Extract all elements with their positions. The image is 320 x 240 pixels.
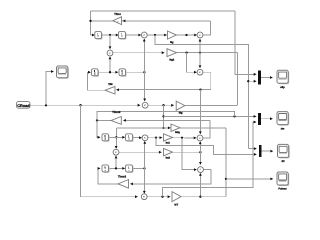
node J17 (116.3,137.3) bbox=[115, 136, 117, 138]
svg-text:kMg: kMg bbox=[175, 131, 180, 134]
arrow into sum9 top bbox=[199, 162, 202, 165]
node J24 (248.3,81.2) bbox=[247, 80, 249, 82]
arrow into sum9 bottom bbox=[199, 173, 202, 176]
wire scope0 branch bbox=[46, 72, 53, 106]
sum S7 bbox=[197, 135, 203, 141]
mux M1 bbox=[258, 70, 261, 84]
wire x=116.3 down to sum8 top bbox=[115, 128, 117, 148]
node J10 (80.5,105.2) bbox=[79, 104, 81, 106]
svg-text:Mg: Mg bbox=[179, 112, 183, 115]
svg-text:Ng: Ng bbox=[170, 41, 174, 44]
integrator blockC 1/s bbox=[103, 135, 110, 142]
wire sum5 out to gain G bbox=[148, 104, 173, 106]
wire x=200.5 down to sum7 top bbox=[200, 90, 202, 134]
integrator blockB 1/s bbox=[120, 70, 127, 77]
gain triU (right) bbox=[171, 124, 180, 131]
scope Scope1 bbox=[278, 71, 289, 84]
wire Tims2 out y=120.5 bbox=[97, 120, 111, 122]
svg-text:Tims3: Tims3 bbox=[118, 174, 127, 178]
arrow into sum4 top bbox=[199, 65, 202, 68]
arrow into gain MT bbox=[168, 195, 171, 198]
scope Scope3 bbox=[279, 145, 290, 158]
node J8 (200.5,89.6) bbox=[199, 88, 201, 90]
node J14 (234.5,116.4) bbox=[233, 115, 235, 117]
node J19 (182,137.8) bbox=[181, 137, 183, 139]
svg-text:Tims: Tims bbox=[114, 12, 121, 16]
wire MT out extension to x=226 bbox=[200, 196, 226, 198]
arrow into sum3 bottom bbox=[109, 56, 112, 59]
integrator block1 1/s bbox=[96, 33, 103, 40]
wire x=144.5 down to sum10 top bbox=[144, 168, 146, 192]
wire x=80.5 road to bottom row bbox=[81, 105, 137, 197]
wire ka1 out to sum7 bbox=[173, 137, 196, 139]
node J21 (200.4,152.2) bbox=[199, 151, 201, 153]
arrow into sum10 left bbox=[135, 195, 138, 198]
wire blockC-blockD y=137.3 bbox=[109, 136, 125, 138]
wire Tims feedback line y=20.9 bbox=[91, 20, 211, 22]
svg-text:CRoad: CRoad bbox=[17, 104, 30, 108]
arrow into scope2 bbox=[270, 117, 273, 120]
wire TM gain out up to blockA bbox=[88, 72, 105, 90]
wire mux2 to scope2 bbox=[261, 118, 272, 120]
svg-text:slip: slip bbox=[280, 86, 285, 89]
wire x=226 down bbox=[225, 128, 227, 197]
svg-text:dX: dX bbox=[281, 160, 285, 163]
sum S5 bbox=[142, 102, 148, 108]
wire mux3 top feed stub bbox=[248, 148, 255, 150]
svg-text:Tims2: Tims2 bbox=[112, 110, 121, 114]
wire x=186.6 down to sum4 left bbox=[187, 53, 196, 73]
gain Tims (left) bbox=[113, 17, 122, 25]
gain Tims3 (left) bbox=[118, 180, 129, 189]
wire x=144.4 down to sum5 top bbox=[143, 72, 145, 100]
arrow into scope0 bbox=[51, 70, 54, 73]
wire mux1 bottom stub bbox=[248, 80, 255, 82]
arrow into TM gain right edge bbox=[116, 88, 119, 91]
wire Ng2 out y=52.5 bbox=[177, 52, 238, 54]
gain G (right) bbox=[176, 101, 185, 110]
wire triU out to corner x=226 bbox=[180, 127, 226, 129]
mux M3 bbox=[259, 145, 262, 157]
gain ka2 (right) bbox=[164, 148, 173, 155]
arrow into sum7 top bbox=[199, 131, 202, 134]
wire x=116 sum8 bottom from J20 bbox=[115, 157, 117, 169]
arrow into sum6 bottom bbox=[143, 141, 146, 144]
wire sum6 out to gain ka1 bbox=[148, 137, 162, 139]
sum S6 bbox=[142, 135, 148, 141]
sum S4 bbox=[197, 69, 203, 75]
wire ORoad out y=105.2 bbox=[29, 104, 139, 106]
wire feedback top bus y=10.8 bbox=[91, 10, 235, 12]
wire mux3 bottom feed bbox=[156, 138, 256, 155]
wire x=200.4 down to sum9 top bbox=[199, 152, 201, 164]
arrow into sum5 left bbox=[138, 104, 141, 107]
wire triU input row y=128 bbox=[116, 127, 169, 129]
arrow into mux3 top bbox=[254, 147, 257, 150]
wire block1-block2 y=35 bbox=[102, 34, 118, 36]
node J22 (144.5,168.4) bbox=[143, 167, 145, 169]
wire sum8 out to gain ka2 bbox=[119, 151, 161, 153]
wire x=234.9 acc bus to mux1 top bbox=[235, 11, 256, 75]
wire sum7 loop right-up to Tims2 line bbox=[203, 120, 210, 137]
arrow into sum2 bottom bbox=[199, 39, 202, 42]
integrator blockE 1/s bbox=[103, 166, 110, 173]
wire Tims2 input line y=120.4 bbox=[124, 119, 210, 121]
wire gain G out to corner 237.5 bbox=[185, 104, 238, 106]
svg-text:Ng2: Ng2 bbox=[169, 58, 174, 61]
source block ORoad bbox=[17, 102, 31, 109]
arrow into sum9 left bbox=[194, 168, 197, 171]
node J1 (90.5,20.9) bbox=[89, 20, 91, 22]
wire x=163.5 down bbox=[163, 105, 165, 128]
wire sum1 to gain Ng bbox=[147, 34, 166, 36]
arrow into sum6 left bbox=[139, 136, 142, 139]
wire x=200.4 up to sum7 bottom bbox=[199, 142, 201, 152]
arrow into scope4 bbox=[270, 178, 273, 181]
integrator blockA 1/s bbox=[93, 70, 100, 77]
wire y=44.6 line from J3 bbox=[155, 35, 248, 149]
node J12 (163.5,116.4) bbox=[162, 115, 164, 117]
arrow into gain ka2 bbox=[159, 151, 162, 154]
wire sum2 loop up to Tims input bbox=[203, 21, 211, 35]
wire blockB out to x=144.4 bbox=[126, 71, 145, 73]
wire blockD to sum6 bbox=[133, 136, 141, 138]
wire mux3 to scope3 bbox=[261, 150, 272, 152]
node J13 (163.5,128) bbox=[162, 127, 164, 129]
arrow into mux1 bottom bbox=[254, 80, 257, 83]
wire mux2 bottom feed long bbox=[163, 122, 256, 197]
wire sum3 out to gain Ng2 bbox=[113, 52, 164, 54]
wire ka2 out y=152.2 bbox=[173, 151, 201, 153]
wire x=110 sum3 bottom from J6 bbox=[109, 58, 111, 73]
svg-text:MT: MT bbox=[174, 203, 178, 206]
sum S9 bbox=[198, 167, 204, 173]
svg-text:ka2: ka2 bbox=[166, 156, 171, 159]
arrow into sum4 left bbox=[194, 71, 197, 74]
scope Scope0 bbox=[58, 67, 69, 79]
arrow into scope1 bbox=[270, 76, 273, 79]
sum S2 bbox=[197, 32, 203, 38]
wire Tims3 out up to blockE bbox=[98, 168, 118, 184]
wire sum9 loop right-down to Tims3 line bbox=[131, 170, 211, 184]
arrow into Tims2 right edge bbox=[123, 119, 126, 122]
arrow into integrator blockD bbox=[122, 136, 125, 139]
arrow into integrator blockA bbox=[88, 71, 91, 74]
arrow into mux3 bottom bbox=[254, 153, 257, 156]
arrow into sum7 left bbox=[194, 137, 197, 140]
node J11 (163.5,105.2) bbox=[162, 104, 164, 106]
svg-text:Pulses: Pulses bbox=[278, 188, 287, 191]
wire block2 to sum1 bbox=[126, 34, 141, 36]
node J9 (46,105.2) bbox=[45, 104, 47, 106]
sum S1 bbox=[141, 32, 147, 38]
wire left drop x=90.5 (Tims out to integrator 1) bbox=[90, 11, 92, 35]
arrow into sum10 top bbox=[143, 191, 146, 194]
wire blockF out to x=144.5 bbox=[133, 167, 145, 169]
node J26 (200.4,196.7) bbox=[199, 196, 201, 198]
arrow into sum2 left bbox=[194, 34, 197, 37]
arrow into integrator blockE bbox=[98, 167, 101, 170]
node J2 (110,35) bbox=[109, 34, 111, 36]
wire MT out up to sum9 bottom bbox=[181, 174, 200, 197]
arrow into gain triU bbox=[168, 127, 171, 130]
gain MT (right) bbox=[172, 192, 181, 202]
sum S8 bbox=[113, 149, 119, 155]
arrow into mux1 top bbox=[254, 73, 257, 76]
gain TM (left) bbox=[105, 86, 115, 94]
arrow into integrator block2 bbox=[116, 34, 119, 37]
integrator blockD 1/s bbox=[127, 135, 134, 142]
arrow into sum8 bottom bbox=[115, 156, 118, 159]
wire mux2 top feed y=116.4 bbox=[164, 115, 256, 117]
wire mux1 to scope1 bbox=[261, 77, 272, 79]
arrow into mux2 bottom bbox=[254, 121, 257, 124]
wire x=144.5 up to sum6 bottom bbox=[144, 141, 146, 168]
wire blockA-blockB y=72.2 bbox=[98, 71, 117, 73]
mux M2 bbox=[258, 113, 261, 125]
arrow into scope3 bbox=[270, 150, 273, 153]
wire x=182 down to sum9 left bbox=[182, 138, 196, 170]
integrator block2 1/s bbox=[120, 33, 127, 40]
node J5 (200,52.6) bbox=[199, 51, 201, 53]
arrow into sum7 bottom bbox=[199, 141, 202, 144]
wire sum4 loop right-down to TM line bbox=[117, 72, 211, 89]
wire left drop x=97 to blockC bbox=[97, 121, 99, 138]
integrator blockF 1/s bbox=[127, 166, 134, 173]
gain Ng2 (right) bbox=[167, 49, 177, 57]
wire Tims2 feedback y=111.6 bbox=[97, 112, 235, 121]
wire Ng out to sum2 bbox=[176, 34, 196, 36]
arrow into sum1 left bbox=[138, 34, 141, 37]
wire x=237.5 up to Ng2 line bbox=[237, 53, 239, 106]
scope Scope4 bbox=[278, 173, 289, 186]
arrow into gain ka1 bbox=[160, 136, 163, 139]
scope Scope2 bbox=[278, 113, 289, 126]
node J20 (116,168.4) bbox=[115, 167, 117, 169]
svg-text:T/M: T/M bbox=[108, 83, 112, 86]
node J6 (110,72.2) bbox=[109, 71, 111, 73]
node J18 (156,137.7) bbox=[155, 137, 157, 139]
arrow into Tims3 right edge bbox=[130, 183, 133, 186]
sum S10 bbox=[141, 194, 147, 200]
node J23 (162.5,196.7) bbox=[161, 196, 163, 198]
wire x=144.4 up to sum1 bottom bbox=[143, 39, 145, 72]
arrow into integrator block1 bbox=[92, 34, 95, 37]
node J3 (155,35) bbox=[154, 34, 156, 36]
wire x=200 Ng2 to sum4 top bbox=[199, 53, 201, 68]
gain Tims2 (left) bbox=[111, 117, 121, 125]
node J4 (186.5,35) bbox=[185, 34, 187, 36]
gain ka1 (right) bbox=[164, 134, 173, 141]
arrow into integrator blockF bbox=[122, 167, 125, 170]
wire sum10 out y=196.7 bbox=[147, 196, 169, 198]
arrow into sum1 bottom bbox=[143, 39, 146, 42]
sum S3 bbox=[107, 50, 113, 56]
arrow into integrator blockB bbox=[115, 71, 118, 74]
wire x=200 Ng2 to sum2 bottom bbox=[199, 39, 201, 53]
gain Ng (right) bbox=[168, 31, 177, 39]
node J7 (144.4,72.2) bbox=[143, 71, 145, 73]
arrow into mux2 top bbox=[254, 115, 257, 118]
arrow into gain Ng bbox=[164, 34, 167, 37]
svg-text:ka1: ka1 bbox=[166, 142, 171, 145]
arrow into Tims gain right edge bbox=[123, 20, 126, 23]
arrow into gain Ng2 bbox=[162, 51, 165, 54]
node J25 (226,178.9) bbox=[225, 178, 227, 180]
node J5b (186.6,52.6) bbox=[185, 51, 187, 53]
node J16 (97,120.5) bbox=[96, 119, 98, 121]
arrow into sum3 top bbox=[109, 46, 112, 49]
wire scope4 feed y=178.9 bbox=[226, 178, 272, 180]
arrow into gain G bbox=[171, 104, 174, 107]
arrow into sum8 top bbox=[115, 146, 118, 149]
arrow into sum5 top bbox=[143, 99, 146, 102]
arrow into integrator blockC bbox=[98, 136, 101, 139]
wire x=110 J2 to sum3 top bbox=[109, 35, 111, 48]
wire blockE-blockF y=168.4 bbox=[109, 167, 125, 169]
